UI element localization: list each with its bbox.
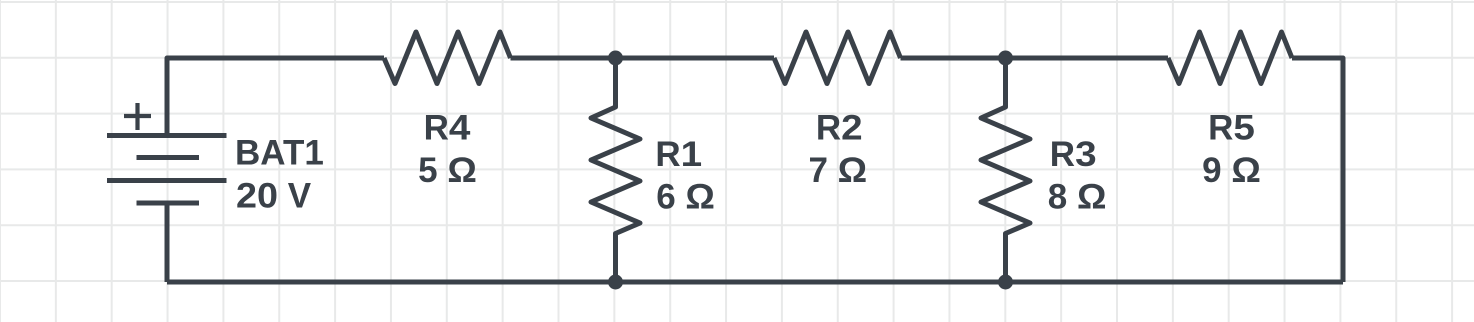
junction node B top (R3 top) xyxy=(998,51,1013,66)
wire node B to R5 xyxy=(1006,56,1169,61)
resistor R1 xyxy=(591,58,640,282)
BAT1 plate long xyxy=(107,178,227,183)
svg-text:R1: R1 xyxy=(655,135,702,174)
resistor R3 xyxy=(981,58,1030,282)
svg-text:9 Ω: 9 Ω xyxy=(1202,151,1261,190)
svg-text:5 Ω: 5 Ω xyxy=(418,151,477,190)
svg-text:R3: R3 xyxy=(1050,135,1097,174)
wire node A to R2 xyxy=(616,56,775,61)
BAT1 plus sign xyxy=(124,103,151,130)
wire bottom rail xyxy=(167,280,1343,285)
wire battery positive terminal up and right to R4 xyxy=(167,58,384,136)
battery BAT1 xyxy=(107,103,227,203)
svg-text:6 Ω: 6 Ω xyxy=(656,178,715,217)
wire R4 to node A xyxy=(511,56,616,61)
svg-text:8 Ω: 8 Ω xyxy=(1048,178,1107,217)
junction node A bottom (R1 bottom) xyxy=(608,275,623,290)
resistor R2 xyxy=(774,32,901,84)
svg-text:R4: R4 xyxy=(424,109,471,148)
svg-text:7 Ω: 7 Ω xyxy=(808,151,867,190)
svg-text:20 V: 20 V xyxy=(236,177,312,216)
wire R2 to node B xyxy=(901,56,1006,61)
junction node B bottom (R3 bottom) xyxy=(998,275,1013,290)
BAT1 plate short xyxy=(137,155,200,160)
resistor R4 xyxy=(384,32,511,84)
wire R5 to right corner and down right side xyxy=(1292,58,1343,282)
BAT1 plate positive long top xyxy=(107,133,227,138)
svg-text:R2: R2 xyxy=(816,109,863,148)
junction node A top (R1 top) xyxy=(608,51,623,66)
BAT1 plate negative short bottom xyxy=(137,201,200,206)
resistor R5 xyxy=(1168,32,1292,84)
svg-text:R5: R5 xyxy=(1208,109,1255,148)
wire battery negative terminal down to bottom rail xyxy=(165,203,170,282)
svg-text:BAT1: BAT1 xyxy=(235,134,324,173)
